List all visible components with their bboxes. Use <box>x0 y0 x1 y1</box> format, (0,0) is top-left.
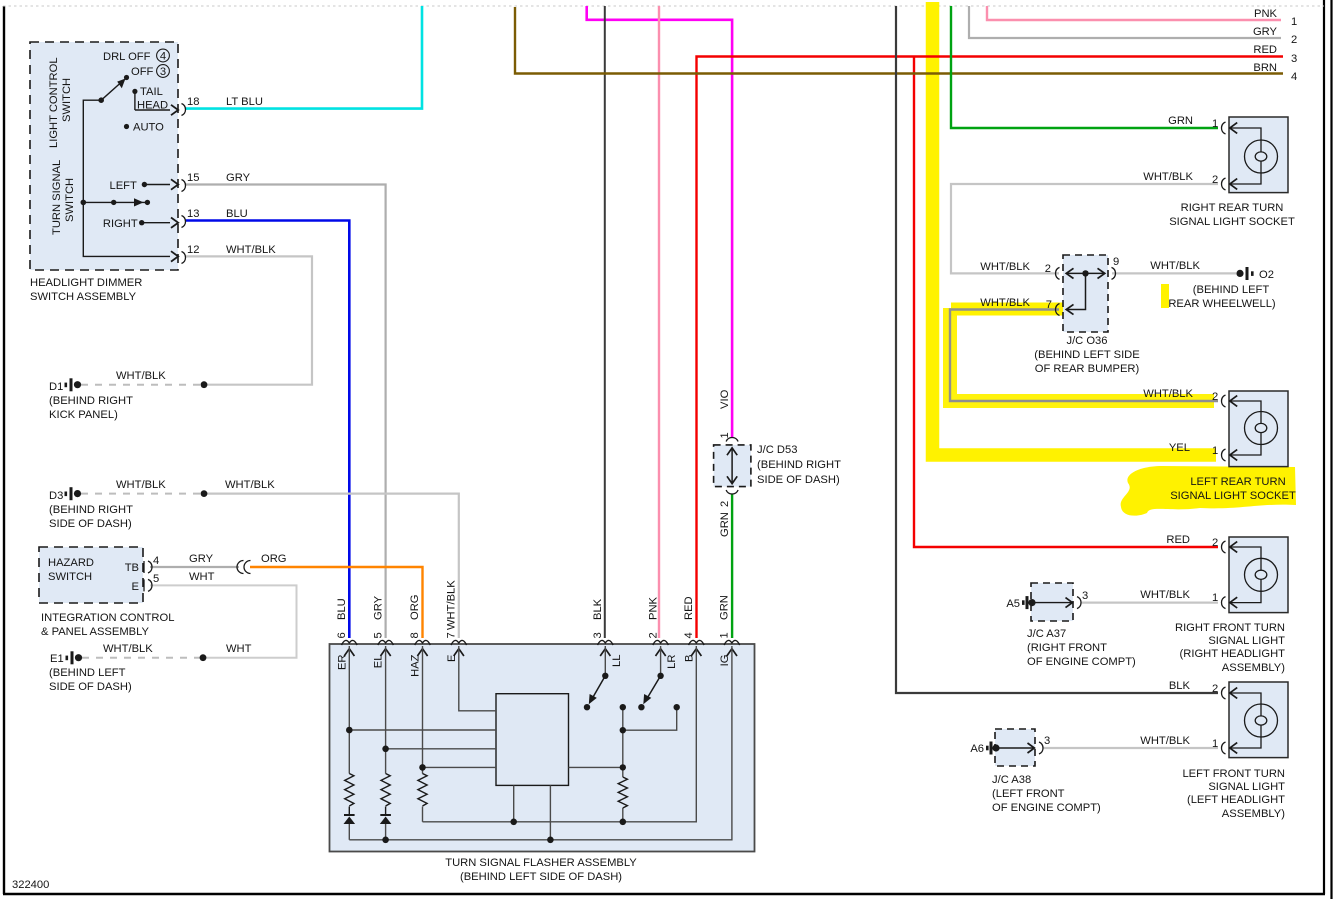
flasher rotated wire labels and pin numbers <box>336 580 731 677</box>
svg-text:12: 12 <box>187 244 199 256</box>
svg-text:322400: 322400 <box>12 879 49 891</box>
svg-text:DRL OFF: DRL OFF <box>103 51 151 63</box>
svg-text:(BEHIND LEFT SIDE: (BEHIND LEFT SIDE <box>1034 349 1139 361</box>
svg-text:OFF: OFF <box>131 66 154 78</box>
svg-text:SWITCH: SWITCH <box>48 571 92 583</box>
svg-text:A6: A6 <box>970 743 984 755</box>
svg-text:LEFT: LEFT <box>110 180 138 192</box>
svg-text:SIGNAL LIGHT: SIGNAL LIGHT <box>1208 781 1285 793</box>
svg-text:RED: RED <box>683 596 695 620</box>
svg-text:E: E <box>446 655 458 662</box>
svg-text:1: 1 <box>1291 16 1297 28</box>
wire BRN from top edge across to right edge <box>515 7 1283 74</box>
svg-text:1: 1 <box>1212 118 1218 130</box>
wire WHT/BLK from right rear socket pin 2 to J/C O36 pin 2 <box>951 184 1218 273</box>
svg-text:WHT/BLK: WHT/BLK <box>1143 388 1193 400</box>
svg-text:3: 3 <box>1291 53 1297 65</box>
svg-text:HAZ: HAZ <box>410 654 422 677</box>
svg-text:WHT/BLK: WHT/BLK <box>116 479 166 491</box>
svg-text:1: 1 <box>719 432 731 438</box>
wire HAZ vertical <box>422 646 424 774</box>
svg-text:OF ENGINE COMPT): OF ENGINE COMPT) <box>992 802 1101 814</box>
svg-text:9: 9 <box>1113 256 1119 268</box>
wire RED branch down to right front turn signal socket <box>914 57 1218 548</box>
svg-text:ER: ER <box>336 655 348 671</box>
caption headlight dimmer switch assembly <box>30 277 142 303</box>
hazard pin 4 connector <box>144 553 214 573</box>
svg-text:2: 2 <box>719 501 731 507</box>
wire WHT/BLK from J/C O36 pin 7 to left rear socket pin 2 <box>950 310 1218 402</box>
wire WHT/BLK dashed ground lead D1 <box>81 384 204 386</box>
svg-text:VIO: VIO <box>719 389 731 409</box>
wire WHT/BLK from J/C A38 to left front socket pin 1 <box>1043 747 1218 749</box>
WIRES-MAIN <box>81 6 1283 748</box>
IC right bottom pin <box>549 785 551 839</box>
wire EL vertical <box>385 646 387 774</box>
LR switch vertical <box>660 646 662 676</box>
yellow highlighted YEL wire vertical+horizontal <box>933 2 1217 455</box>
svg-text:(RIGHT FRONT: (RIGHT FRONT <box>1027 642 1107 654</box>
LR contact column <box>622 707 624 777</box>
svg-text:2: 2 <box>1212 391 1218 403</box>
diode EL <box>380 807 392 825</box>
svg-text:2: 2 <box>1291 34 1297 46</box>
J/C O36 junction connector <box>980 255 1200 375</box>
svg-text:5: 5 <box>372 632 384 638</box>
svg-text:2: 2 <box>647 632 659 638</box>
wire WHT/BLK dashed ground lead E1 <box>82 657 203 659</box>
svg-text:GRN: GRN <box>719 512 731 537</box>
svg-text:6: 6 <box>336 632 348 638</box>
svg-text:BLU: BLU <box>226 208 248 220</box>
svg-text:SIDE OF DASH): SIDE OF DASH) <box>49 681 132 693</box>
light control switch contacts <box>83 49 178 262</box>
svg-text:A5: A5 <box>1006 598 1020 610</box>
wire ER vertical <box>348 646 350 774</box>
right front turn signal light socket <box>1140 534 1288 674</box>
caption turn signal flasher assembly <box>445 857 637 883</box>
svg-text:AUTO: AUTO <box>133 122 164 134</box>
svg-text:TURN SIGNAL: TURN SIGNAL <box>51 160 63 235</box>
J/C D53 junction connector <box>714 389 841 537</box>
svg-text:1: 1 <box>1212 738 1218 750</box>
svg-text:1: 1 <box>1212 445 1218 457</box>
svg-text:18: 18 <box>187 96 199 108</box>
svg-text:LL: LL <box>611 655 623 667</box>
contact U link <box>623 707 677 730</box>
tail-head tie line <box>134 91 136 110</box>
svg-text:ORG: ORG <box>409 595 421 620</box>
svg-text:RIGHT: RIGHT <box>103 218 138 230</box>
ground E1 <box>49 643 252 693</box>
svg-text:SWITCH ASSEMBLY: SWITCH ASSEMBLY <box>30 291 137 303</box>
svg-text:OF REAR BUMPER): OF REAR BUMPER) <box>1035 363 1140 375</box>
wire VIO magenta from top edge to J/C D53 pin 1 <box>587 6 732 438</box>
svg-text:WHT/BLK: WHT/BLK <box>226 244 276 256</box>
svg-text:RED: RED <box>1253 44 1277 56</box>
svg-text:WHT/BLK: WHT/BLK <box>1143 171 1193 183</box>
svg-text:INTEGRATION CONTROL: INTEGRATION CONTROL <box>41 612 174 624</box>
svg-text:2: 2 <box>1045 263 1051 275</box>
wire HAZ resistor to upper rail <box>422 807 424 822</box>
svg-text:13: 13 <box>187 208 199 220</box>
svg-text:O2: O2 <box>1259 269 1274 281</box>
wire E pin to IC <box>459 646 496 711</box>
ground A5 <box>1022 596 1036 609</box>
wire GRN from J/C D53 pin 2 down to flasher IG <box>731 494 733 638</box>
hazard pin 5 connector <box>144 571 215 591</box>
svg-text:GRY: GRY <box>372 595 384 620</box>
svg-text:4: 4 <box>153 555 159 567</box>
svg-text:4: 4 <box>683 632 695 638</box>
svg-text:(RIGHT HEADLIGHT: (RIGHT HEADLIGHT <box>1180 648 1286 660</box>
resistor LR column <box>618 777 627 808</box>
wire GRY top right to edge <box>969 6 1281 38</box>
svg-text:WHT/BLK: WHT/BLK <box>116 370 166 382</box>
svg-text:LT BLU: LT BLU <box>226 96 263 108</box>
svg-text:ORG: ORG <box>261 553 286 565</box>
svg-text:3: 3 <box>592 632 604 638</box>
LR switch lever <box>638 673 664 711</box>
svg-text:IG: IG <box>719 655 731 667</box>
headlight dimmer switch assembly box <box>30 42 178 270</box>
common line from pivot down to pin 12 <box>83 100 170 256</box>
svg-text:5: 5 <box>153 573 159 585</box>
svg-text:(BEHIND LEFT: (BEHIND LEFT <box>49 667 126 679</box>
svg-text:LR: LR <box>666 655 678 669</box>
wire WHT/BLK from D3 to flasher E <box>204 494 459 638</box>
svg-text:WHT/BLK: WHT/BLK <box>980 261 1030 273</box>
wire WHT/BLK from pin 12 to D1 junction <box>186 256 312 384</box>
svg-text:SIGNAL LIGHT SOCKET: SIGNAL LIGHT SOCKET <box>1170 490 1296 502</box>
svg-text:KICK PANEL): KICK PANEL) <box>49 409 118 421</box>
svg-text:4: 4 <box>160 51 166 63</box>
svg-text:PNK: PNK <box>647 596 659 620</box>
svg-text:SIDE OF DASH): SIDE OF DASH) <box>49 518 132 530</box>
wire BLK from top edge to flasher LL <box>604 6 606 638</box>
head output line to pin 18 <box>135 109 170 111</box>
IC left bottom pin <box>513 785 515 821</box>
turn signal switch contacts <box>81 179 179 230</box>
svg-text:7: 7 <box>1046 299 1052 311</box>
svg-text:REAR WHEELWELL): REAR WHEELWELL) <box>1168 298 1276 310</box>
LL switch lever <box>584 673 609 711</box>
YELLOW-HIGHLIGHTS <box>933 2 1297 516</box>
right rear turn signal light socket <box>1143 115 1295 228</box>
svg-text:2: 2 <box>1212 174 1218 186</box>
svg-text:SWITCH: SWITCH <box>61 78 73 122</box>
wire ER branch to IC <box>349 729 496 731</box>
svg-text:YEL: YEL <box>1169 442 1190 454</box>
wire GRN from top edge down to right rear socket pin 1 <box>951 6 1218 128</box>
wire HAZ branch to IC <box>423 766 497 768</box>
svg-text:WHT: WHT <box>226 643 252 655</box>
svg-text:(LEFT HEADLIGHT: (LEFT HEADLIGHT <box>1187 794 1285 806</box>
svg-text:1: 1 <box>719 632 731 638</box>
svg-text:WHT/BLK: WHT/BLK <box>103 643 153 655</box>
resistor column to upper rail <box>622 808 624 822</box>
svg-text:GRN: GRN <box>719 595 731 620</box>
svg-text:HEADLIGHT DIMMER: HEADLIGHT DIMMER <box>30 277 142 289</box>
svg-text:& PANEL ASSEMBLY: & PANEL ASSEMBLY <box>41 626 150 638</box>
wire GRY from pin 15 down to flasher EL <box>186 185 386 639</box>
svg-text:RED: RED <box>1166 534 1190 546</box>
svg-text:(BEHIND RIGHT: (BEHIND RIGHT <box>757 459 841 471</box>
svg-text:ASSEMBLY): ASSEMBLY) <box>1222 662 1285 674</box>
wire WHT from E1 junction to hazard switch E pin <box>150 585 297 657</box>
svg-text:PNK: PNK <box>1254 8 1278 20</box>
caption integration control panel assembly <box>41 612 174 638</box>
wire LT BLU cyan from pin 18 to top edge <box>186 6 422 109</box>
LL switch vertical <box>604 646 606 676</box>
svg-text:E: E <box>132 581 139 593</box>
svg-text:RIGHT REAR TURN: RIGHT REAR TURN <box>1181 202 1284 214</box>
svg-text:WHT/BLK: WHT/BLK <box>1140 589 1190 601</box>
wire PNK from top edge to flasher LR <box>658 6 660 638</box>
svg-text:ASSEMBLY): ASSEMBLY) <box>1222 808 1285 820</box>
lower rail to IG pin <box>349 646 732 840</box>
svg-text:WHT/BLK: WHT/BLK <box>225 479 275 491</box>
svg-text:SIGNAL LIGHT: SIGNAL LIGHT <box>1208 635 1285 647</box>
hazard switch box <box>39 547 143 603</box>
small yellow dash near REAR WHEELWELL text <box>1161 284 1169 308</box>
resistor ER <box>345 774 354 806</box>
svg-text:HAZARD: HAZARD <box>48 557 94 569</box>
svg-text:2: 2 <box>1212 537 1218 549</box>
svg-text:(BEHIND RIGHT: (BEHIND RIGHT <box>49 395 133 407</box>
svg-text:EL: EL <box>373 655 385 669</box>
svg-text:TB: TB <box>125 562 139 574</box>
svg-text:D1: D1 <box>49 381 63 393</box>
svg-text:(BEHIND LEFT SIDE OF DASH): (BEHIND LEFT SIDE OF DASH) <box>460 871 622 883</box>
wire WHT/BLK from J/C O36 pin 9 to ground O2 <box>1112 272 1236 274</box>
svg-text:LEFT REAR TURN: LEFT REAR TURN <box>1190 476 1285 488</box>
wire WHT/BLK dashed ground lead D3 <box>81 493 204 495</box>
wire RED from flasher B up and right to edge, with branch to right front socket <box>697 57 1284 639</box>
pin 13 connector <box>182 208 248 228</box>
svg-text:BRN: BRN <box>1253 62 1277 74</box>
svg-text:GRN: GRN <box>1168 115 1193 127</box>
wire ORG from inline connector to flasher HAZ <box>250 567 423 638</box>
wire EL branch to IC <box>386 748 496 750</box>
left front turn signal light socket <box>1140 680 1288 820</box>
inline connector GRY/ORG <box>237 553 286 574</box>
ground D1 <box>49 370 207 421</box>
svg-text:4: 4 <box>1291 71 1297 83</box>
resistor HAZ <box>418 774 427 806</box>
switch pivot and lever <box>98 97 104 103</box>
wire ER diode to lower rail <box>348 824 350 840</box>
svg-text:OF ENGINE COMPT): OF ENGINE COMPT) <box>1027 656 1136 668</box>
svg-text:BLU: BLU <box>336 598 348 620</box>
IC right side to LR resistor column <box>569 766 623 768</box>
pin 18 connector <box>182 96 263 116</box>
svg-text:8: 8 <box>409 632 421 638</box>
resistor EL <box>381 774 390 806</box>
svg-text:LEFT FRONT TURN: LEFT FRONT TURN <box>1182 768 1285 780</box>
svg-text:J/C A38: J/C A38 <box>992 774 1031 786</box>
yellow marker blob under LEFT REAR TURN SIGNAL LIGHT SOCKET text <box>1121 466 1296 516</box>
svg-text:WHT: WHT <box>189 571 215 583</box>
svg-text:WHT/BLK: WHT/BLK <box>446 580 458 630</box>
svg-text:1: 1 <box>1212 592 1218 604</box>
svg-text:WHT/BLK: WHT/BLK <box>980 297 1030 309</box>
svg-text:3: 3 <box>1082 590 1088 602</box>
left rear turn signal light socket <box>1143 388 1296 502</box>
svg-text:GRY: GRY <box>226 172 251 184</box>
svg-text:E1: E1 <box>50 653 64 665</box>
svg-text:J/C O36: J/C O36 <box>1066 335 1107 347</box>
ground D3 <box>49 479 275 530</box>
svg-text:D3: D3 <box>49 490 63 502</box>
diode ER <box>344 807 356 825</box>
svg-text:BLK: BLK <box>1169 680 1191 692</box>
svg-text:J/C A37: J/C A37 <box>1027 628 1066 640</box>
svg-text:SWITCH: SWITCH <box>64 178 76 222</box>
svg-text:GRY: GRY <box>189 553 214 565</box>
svg-text:GRY: GRY <box>1253 26 1278 38</box>
svg-text:WHT/BLK: WHT/BLK <box>1150 260 1200 272</box>
svg-text:BLK: BLK <box>592 598 604 620</box>
wire GRY from hazard TB to inline connector <box>150 566 239 568</box>
wire BLU from pin 13 down to flasher ER <box>186 221 349 639</box>
svg-text:2: 2 <box>1212 683 1218 695</box>
yellow highlight over WHT/BLK wire to left rear socket <box>950 308 1214 401</box>
flasher pin entry arrows <box>344 649 737 656</box>
ground O2 <box>1168 267 1276 310</box>
svg-text:TAIL: TAIL <box>140 86 163 98</box>
pin 15 connector <box>182 172 251 192</box>
wire BLK from top edge down to left front socket pin 2 <box>896 6 1218 693</box>
svg-text:(BEHIND LEFT: (BEHIND LEFT <box>1193 284 1270 296</box>
svg-text:3: 3 <box>160 66 166 78</box>
J/C A38 junction connector <box>970 729 1101 814</box>
flasher junction dots <box>346 704 680 843</box>
ground A6 <box>986 742 1000 755</box>
top right wire labels <box>1253 8 1297 83</box>
svg-text:SIDE OF DASH): SIDE OF DASH) <box>757 474 840 486</box>
svg-text:3: 3 <box>1044 735 1050 747</box>
flasher internal wires <box>349 646 732 840</box>
svg-text:RIGHT FRONT TURN: RIGHT FRONT TURN <box>1175 622 1285 634</box>
wire EL diode to lower rail <box>385 824 387 840</box>
turn signal flasher assembly box <box>330 644 755 852</box>
svg-text:TURN SIGNAL FLASHER ASSEMBLY: TURN SIGNAL FLASHER ASSEMBLY <box>445 857 637 869</box>
upper rail to B pin <box>423 646 697 822</box>
J/C A37 junction connector <box>1006 583 1136 668</box>
wire PNK top right to edge <box>987 6 1281 20</box>
pin 12 connector <box>182 244 277 264</box>
svg-text:LIGHT CONTROL: LIGHT CONTROL <box>48 57 60 148</box>
svg-text:(BEHIND RIGHT: (BEHIND RIGHT <box>49 504 133 516</box>
svg-text:B: B <box>683 655 695 662</box>
svg-text:(LEFT FRONT: (LEFT FRONT <box>992 788 1065 800</box>
flasher pin connectors on top edge <box>342 640 740 645</box>
svg-text:WHT/BLK: WHT/BLK <box>1140 735 1190 747</box>
svg-text:15: 15 <box>187 172 199 184</box>
svg-text:J/C D53: J/C D53 <box>757 444 797 456</box>
svg-text:SIGNAL LIGHT SOCKET: SIGNAL LIGHT SOCKET <box>1169 216 1295 228</box>
svg-text:7: 7 <box>446 632 458 638</box>
wire WHT/BLK from J/C A37 to right front socket pin 1 <box>1081 601 1218 603</box>
